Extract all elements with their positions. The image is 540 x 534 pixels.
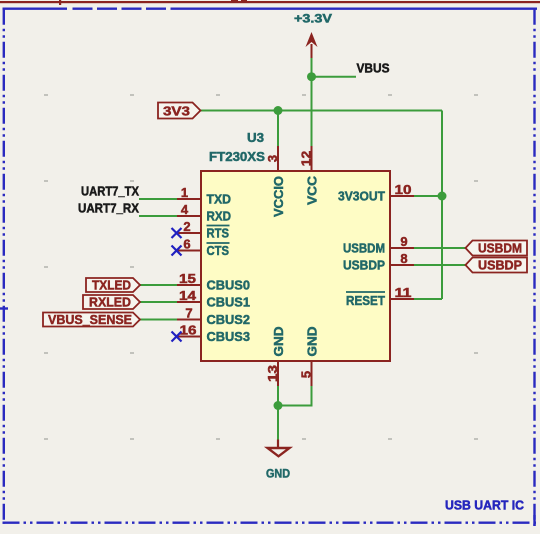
- svg-text:5: 5: [299, 371, 314, 378]
- wire +3.3V to VCC: [311, 56, 313, 146]
- power symbol GND: [266, 440, 290, 481]
- svg-text:VBUS_SENSE: VBUS_SENSE: [48, 312, 132, 327]
- hierarchical label VBUS_SENSE: [43, 312, 140, 327]
- right border line: [533, 9, 535, 526]
- svg-text:9: 9: [400, 234, 407, 249]
- left border line: [3, 9, 5, 524]
- hierarchical label 3V3: [158, 103, 201, 119]
- top border line: [3, 7, 68, 9]
- pin 7 CBUS2: [177, 306, 250, 328]
- wire 3V3 horizontal: [200, 110, 442, 112]
- svg-text:1: 1: [181, 185, 188, 200]
- wire UART7_TX to pin 1: [139, 198, 177, 200]
- pin 4 RXD: [177, 202, 231, 224]
- svg-text:14: 14: [179, 288, 197, 303]
- no-connect pin 2: [172, 228, 182, 238]
- svg-text:12: 12: [299, 151, 314, 167]
- svg-text:8: 8: [400, 251, 407, 266]
- svg-text:2: 2: [183, 219, 190, 234]
- svg-text:USBDM: USBDM: [343, 241, 385, 256]
- pin 9 USBDM: [343, 234, 414, 256]
- svg-text:13: 13: [265, 365, 280, 382]
- junction at GND: [274, 401, 283, 410]
- svg-text:GND: GND: [305, 327, 320, 357]
- pin 1 TXD: [177, 185, 231, 207]
- svg-text:USB UART IC: USB UART IC: [445, 498, 525, 513]
- svg-text:+3.3V: +3.3V: [294, 12, 332, 26]
- junction at 3V3OUT node: [438, 192, 447, 201]
- svg-text:FT230XS: FT230XS: [209, 149, 265, 164]
- top red tick: [59, 0, 61, 5]
- hierarchical label USBDP: [466, 258, 528, 273]
- svg-text:VBUS: VBUS: [357, 62, 390, 76]
- pin 6 CTS: [177, 237, 230, 259]
- IC U3 FT230XS body: [201, 171, 390, 361]
- svg-text:11: 11: [395, 285, 412, 300]
- wire pin 8 to USBDP label: [414, 264, 466, 266]
- pin 10 3V3OUT: [338, 182, 414, 204]
- pin 16 CBUS3: [177, 323, 250, 345]
- wire GND pin 5 down: [278, 386, 312, 406]
- svg-text:U3: U3: [247, 130, 264, 145]
- pin 8 USBDP: [343, 251, 414, 273]
- svg-text:GND: GND: [271, 327, 286, 357]
- bottom-right corner tick: [533, 515, 535, 526]
- no-connect pin 6: [172, 246, 182, 256]
- svg-text:UART7_TX: UART7_TX: [81, 185, 140, 199]
- svg-text:CBUS0: CBUS0: [207, 278, 251, 293]
- svg-text:GND: GND: [266, 467, 290, 481]
- junction at 3V3/VCCIO: [274, 106, 283, 115]
- svg-text:TXLED: TXLED: [92, 278, 131, 293]
- pin 15 CBUS0: [177, 271, 250, 293]
- pin 3 VCCIO: [265, 146, 286, 217]
- hierarchical label RXLED: [83, 295, 140, 310]
- svg-text:CTS: CTS: [207, 243, 230, 258]
- svg-text:USBDP: USBDP: [343, 258, 385, 273]
- svg-text:4: 4: [181, 202, 189, 217]
- top red cut-off marks: [231, 0, 238, 3]
- pin 2 RTS: [177, 219, 230, 241]
- junction at +3.3V/VBUS: [307, 72, 316, 81]
- wire pin 9 to USBDM label: [414, 247, 466, 249]
- svg-text:USBDM: USBDM: [478, 241, 522, 256]
- hierarchical label TXLED: [86, 278, 140, 293]
- wire VBUS_SENSE to pin 7: [140, 319, 177, 321]
- svg-text:15: 15: [179, 271, 196, 286]
- power symbol +3.3V: [294, 12, 332, 59]
- wire TXLED to pin 15: [140, 284, 177, 286]
- top red sheet edge line: [0, 1, 540, 3]
- grid dots: [44, 94, 478, 440]
- svg-text:3: 3: [265, 155, 280, 162]
- pin 12 VCC: [299, 146, 320, 205]
- wire RXLED to pin 14: [140, 301, 177, 303]
- svg-text:RESET: RESET: [346, 293, 385, 308]
- svg-text:CBUS3: CBUS3: [207, 329, 251, 344]
- svg-text:TXD: TXD: [207, 192, 232, 207]
- svg-text:3V3: 3V3: [163, 104, 190, 119]
- svg-text:6: 6: [183, 237, 190, 252]
- wire GND pin 13 down: [277, 386, 279, 441]
- svg-text:VCC: VCC: [305, 175, 320, 205]
- no-connect pin 16: [172, 332, 182, 342]
- wire pin 10 to node: [414, 195, 442, 197]
- wire UART7_RX to pin 4: [139, 215, 177, 217]
- pin 5 GND: [299, 327, 320, 387]
- wire right vertical to RESET: [441, 111, 443, 300]
- svg-text:10: 10: [395, 182, 412, 197]
- svg-text:VCCIO: VCCIO: [271, 176, 286, 217]
- pin 11 RESET: [346, 285, 414, 308]
- svg-text:UART7_RX: UART7_RX: [78, 202, 140, 216]
- hierarchical label USBDM: [466, 241, 528, 256]
- svg-text:16: 16: [180, 323, 197, 338]
- svg-text:USBDP: USBDP: [478, 258, 522, 273]
- svg-text:7: 7: [185, 306, 192, 321]
- svg-text:RTS: RTS: [207, 226, 230, 241]
- svg-text:CBUS2: CBUS2: [207, 312, 251, 327]
- svg-text:3V3OUT: 3V3OUT: [338, 189, 385, 204]
- pin 13 GND: [265, 327, 286, 387]
- bottom border line: [3, 522, 538, 524]
- wire VBUS: [312, 76, 357, 78]
- svg-text:CBUS1: CBUS1: [207, 295, 251, 310]
- wire VCCIO drop: [277, 111, 279, 147]
- svg-text:RXD: RXD: [207, 209, 232, 224]
- wire pin 11 RESET: [414, 298, 442, 300]
- pin 14 CBUS1: [177, 288, 250, 310]
- svg-text:RXLED: RXLED: [89, 295, 131, 310]
- left mid tick: [0, 307, 8, 309]
